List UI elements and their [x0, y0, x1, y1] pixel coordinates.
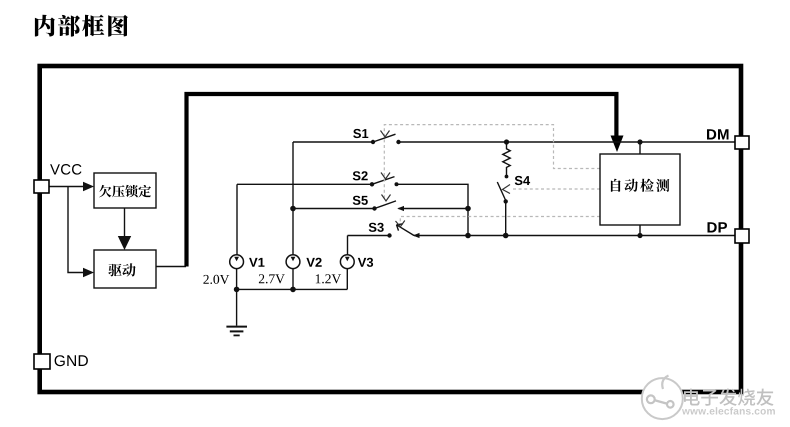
wire S2 right	[397, 184, 469, 235]
voltage source V2	[286, 255, 300, 269]
watermark logo circle	[642, 378, 683, 419]
pin VCC	[34, 180, 49, 193]
wire S5 right	[399, 208, 469, 210]
label GND	[55, 355, 88, 366]
switch S1	[293, 141, 373, 143]
label V2	[306, 258, 321, 267]
value 2.7V	[259, 274, 285, 283]
node V2/S5 junction	[290, 206, 296, 212]
dashed control net S1/S2/S5	[384, 125, 600, 199]
voltage source V3	[340, 255, 354, 269]
arrowhead onto detect box	[611, 136, 624, 153]
wire V3 riser	[347, 236, 349, 255]
switch S2	[237, 183, 372, 185]
value 2.0V	[203, 275, 229, 284]
control arrow S5	[382, 195, 391, 202]
label S4	[515, 176, 530, 185]
block drive	[94, 250, 156, 288]
node detect bottom on DP	[637, 233, 642, 238]
label S5	[353, 196, 368, 205]
node S2/S5 junction	[465, 206, 471, 212]
watermark text	[684, 389, 774, 406]
resistor R1	[503, 142, 510, 176]
title 内部框图	[35, 15, 128, 37]
bottom stubs and ground bus	[237, 269, 348, 290]
node resistor top on DM	[504, 139, 509, 144]
stub DM to detect box	[639, 142, 641, 154]
label S1	[353, 129, 368, 138]
wire S4 to DP	[505, 201, 507, 235]
control arrow S1	[381, 131, 390, 138]
switch S4	[497, 182, 505, 201]
DM net line	[399, 141, 736, 143]
node S2 branch on DP	[465, 233, 471, 239]
label S2	[353, 171, 368, 180]
dashed control S3	[400, 217, 600, 223]
control arrow S2	[381, 173, 390, 180]
label S3	[369, 223, 384, 232]
arrowhead into drive	[83, 268, 94, 277]
pin GND	[34, 354, 50, 369]
block auto-detect U1	[600, 154, 680, 225]
pin DP	[735, 229, 749, 243]
wire V1 riser	[236, 184, 238, 255]
wire V2 riser	[292, 142, 294, 255]
stub detect box to DP	[639, 225, 641, 236]
wire UVLO to drive vertical	[124, 208, 126, 237]
thick feedback path drive to DM	[187, 94, 617, 267]
dashed control S4	[511, 188, 600, 190]
voltage source V1	[230, 255, 244, 269]
outer IC boundary box	[40, 66, 741, 392]
wire drive output	[156, 266, 186, 268]
node detect top on DM	[637, 139, 642, 144]
label V1	[249, 258, 264, 267]
label DM	[707, 129, 729, 139]
switch S3	[348, 235, 390, 237]
wire VCC branch down to drive	[68, 187, 84, 273]
arrowhead into drive top	[118, 236, 131, 250]
block UVLO (undervoltage lockout)	[94, 173, 156, 208]
DP net line	[414, 235, 735, 237]
arrowhead into UVLO	[83, 182, 94, 191]
ground	[236, 289, 238, 325]
control arrow S3	[396, 221, 405, 227]
label VCC	[50, 164, 81, 175]
value 1.2V	[316, 274, 341, 283]
pin DM	[735, 136, 749, 149]
label V3	[358, 258, 373, 267]
label DP	[708, 222, 728, 232]
wire VCC pin to UVLO	[49, 186, 84, 188]
control arrow S4	[503, 185, 511, 194]
switch S5	[293, 208, 375, 210]
